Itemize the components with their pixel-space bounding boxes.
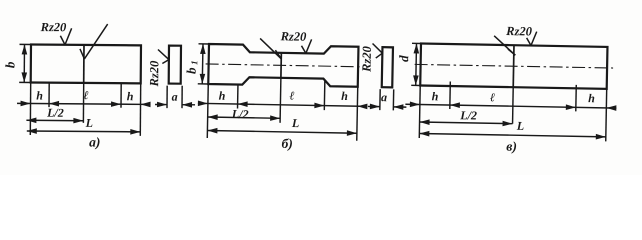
- dimension row h l h of a: [17, 103, 150, 104]
- svg-text:L: L: [516, 119, 525, 133]
- svg-text:L/2: L/2: [231, 107, 249, 121]
- specimen b dog-bone outline: [208, 44, 358, 87]
- svg-text:ℓ: ℓ: [83, 88, 88, 102]
- svg-text:b: b: [183, 67, 198, 74]
- roughness tick on b side face: [376, 53, 383, 58]
- svg-text:h: h: [341, 89, 348, 103]
- svg-text:h: h: [127, 89, 134, 103]
- specimen a front view outline: [31, 45, 141, 84]
- svg-text:a: a: [172, 90, 178, 104]
- centerline v: [415, 64, 613, 68]
- svg-text:b: b: [2, 61, 17, 68]
- specimen v round bar outline: [420, 44, 607, 89]
- svg-text:ℓ: ℓ: [289, 88, 294, 102]
- weld seam line a: [83, 45, 85, 83]
- dimension d line: [415, 43, 418, 85]
- weld seam line v: [512, 45, 515, 87]
- extension lines for thickness a: [166, 86, 168, 108]
- centerline b: [206, 64, 364, 67]
- dimension row h l h of v: [405, 104, 616, 108]
- svg-text:h: h: [588, 91, 595, 105]
- svg-text:d: d: [396, 55, 411, 62]
- svg-text:б): б): [281, 136, 293, 151]
- weld seam line b: [280, 53, 282, 78]
- extension lines for b1: [199, 43, 209, 45]
- extension lines for b: [20, 43, 31, 45]
- svg-text:h: h: [36, 89, 43, 103]
- svg-text:Rz20: Rz20: [505, 24, 533, 39]
- svg-text:ℓ: ℓ: [490, 90, 495, 104]
- extension lines below v: [418, 85, 421, 137]
- roughness tick on weld a: [80, 49, 85, 59]
- roughness tick on a side face: [162, 60, 169, 64]
- roughness tick on weld v: [508, 49, 516, 55]
- svg-text:Rz20: Rz20: [147, 60, 161, 88]
- svg-text:Rz20: Rz20: [280, 29, 308, 44]
- svg-text:1: 1: [189, 60, 199, 65]
- svg-text:L/2: L/2: [46, 106, 64, 120]
- dimension L of a: [27, 130, 140, 133]
- specimen b side view (thickness): [382, 47, 393, 87]
- extension lines below a: [29, 82, 31, 134]
- roughness tick on b surface: [301, 46, 306, 54]
- svg-text:Rz20: Rz20: [40, 20, 68, 34]
- svg-text:L: L: [85, 116, 93, 130]
- svg-text:a: a: [381, 90, 387, 104]
- dimension L/2 of b: [208, 117, 280, 118]
- dimension b line: [23, 44, 25, 82]
- dimension L of v: [419, 133, 605, 136]
- svg-text:L/2: L/2: [459, 108, 477, 122]
- dimension line a (thickness b): [368, 105, 380, 107]
- roughness tick on weld b: [275, 50, 281, 59]
- dimension L/2 of a: [26, 119, 83, 121]
- roughness tick on v surface: [526, 38, 531, 46]
- extension lines for thickness b: [379, 89, 381, 110]
- svg-text:L: L: [291, 116, 300, 130]
- dimension row h l h of b: [198, 103, 367, 106]
- svg-text:а): а): [89, 134, 100, 149]
- svg-text:Rz20: Rz20: [359, 45, 374, 73]
- dimension L of b: [207, 130, 356, 133]
- specimen a side view (thickness): [169, 46, 181, 84]
- extension lines below b: [206, 84, 209, 138]
- extension lines for d: [412, 42, 421, 44]
- roughness tick on top surface a: [60, 36, 65, 45]
- dimension line a (thickness): [155, 103, 167, 105]
- svg-text:h: h: [219, 89, 226, 103]
- svg-text:в): в): [506, 139, 517, 154]
- svg-text:h: h: [432, 89, 439, 103]
- dimension L/2 of v: [420, 122, 513, 124]
- dimension b1 line: [201, 44, 204, 84]
